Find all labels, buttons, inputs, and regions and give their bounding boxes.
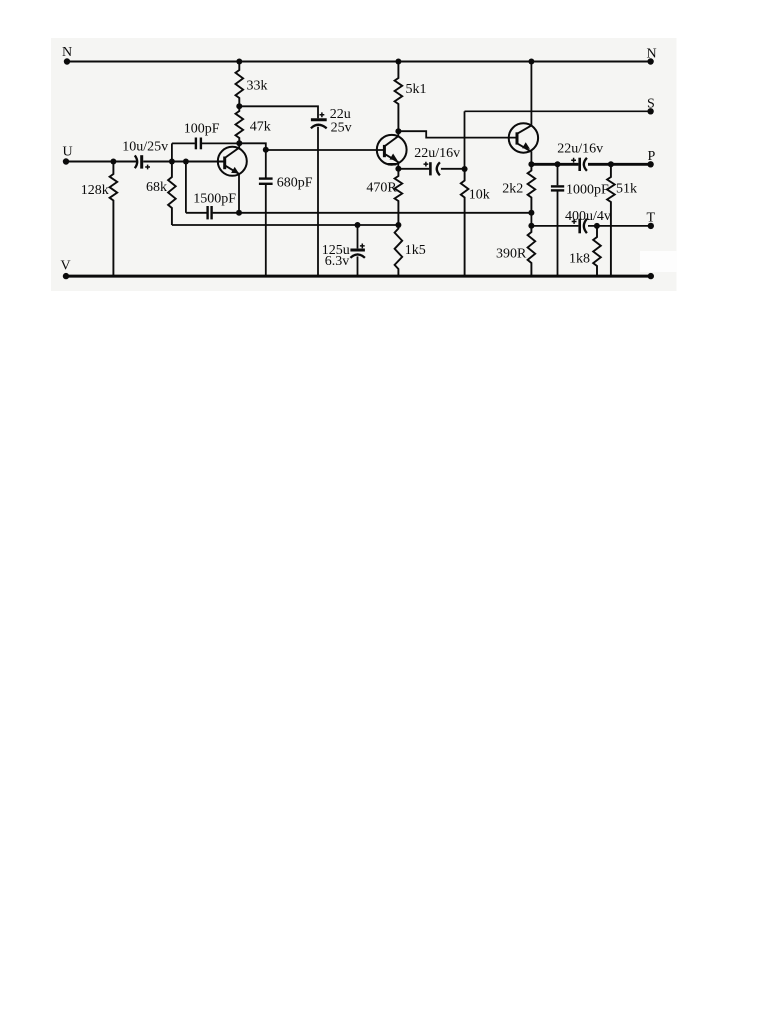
- svg-text:68k: 68k: [146, 180, 167, 195]
- node T line junction: [528, 223, 534, 229]
- node 2k2-390R junction: [528, 210, 534, 216]
- svg-text:470R: 470R: [366, 180, 397, 195]
- wire U rail: [66, 161, 137, 163]
- wire 22u cap to V rail: [317, 127, 319, 276]
- node 1500pF riser junction: [183, 159, 189, 165]
- transistor Q2 emitter arrow: [390, 154, 398, 161]
- capacitor C-in plus sign: [145, 165, 150, 170]
- capacitor 22u/16v-B plus sign: [571, 158, 576, 163]
- node V left terminal: [63, 273, 69, 279]
- svg-text:47k: 47k: [250, 119, 271, 134]
- wire 47k node to 680pF corner: [239, 143, 265, 150]
- capacitor 400u/4v curved plate: [584, 219, 587, 233]
- wire Q3 emitter down: [530, 151, 532, 164]
- wire T line left: [531, 225, 578, 227]
- wire 2k2 to T junction: [530, 213, 532, 226]
- wire Q3 collector up: [530, 62, 532, 125]
- wire 125u top: [357, 225, 359, 248]
- node 51k top junction: [608, 161, 614, 167]
- svg-text:P: P: [648, 149, 656, 164]
- svg-text:N: N: [647, 47, 657, 62]
- resistor 1k8: [593, 226, 601, 276]
- resistor 47k: [236, 106, 244, 143]
- capacitor 1500pF left plate: [206, 206, 208, 219]
- wire 1500pF riser: [185, 162, 187, 213]
- resistor 128k: [110, 162, 118, 277]
- svg-text:100pF: 100pF: [184, 121, 220, 136]
- capacitor 1500pF right plate: [210, 206, 212, 219]
- transistor Q1 circle: [218, 147, 247, 176]
- capacitor C-in 10u/25v straight plate: [140, 155, 143, 168]
- node Q2 emitter junction: [395, 166, 401, 172]
- capacitor 22u/16v-A straight plate: [429, 162, 432, 175]
- capacitor 22u/16v-A plus sign: [424, 162, 429, 167]
- svg-text:22u/16v: 22u/16v: [414, 146, 460, 161]
- svg-text:51k: 51k: [616, 181, 637, 196]
- svg-text:10u/25v: 10u/25v: [122, 139, 168, 154]
- resistor 33k: [236, 62, 244, 107]
- wire 33k junction to 22u cap: [239, 106, 318, 118]
- capacitor 680pF top plate: [259, 177, 273, 179]
- wire 68k to 1k5 node: [172, 224, 399, 226]
- wire 1500pF left: [186, 212, 207, 214]
- scan background: [51, 38, 677, 291]
- resistor 68k: [168, 162, 176, 226]
- node N-5k1 junction: [395, 59, 401, 65]
- wire Q2 base line: [266, 149, 384, 151]
- node 33k-47k junction: [236, 103, 242, 109]
- node V right terminal: [648, 273, 654, 279]
- wire Q2 emitter cap right: [441, 168, 465, 170]
- svg-text:22u/16v: 22u/16v: [557, 141, 603, 156]
- svg-text:1k5: 1k5: [405, 243, 426, 258]
- node 125u tap: [355, 222, 361, 228]
- node 47k bottom junction: [236, 140, 242, 146]
- wire 680pF top: [265, 150, 267, 178]
- transistor Q3 emitter arrow: [522, 142, 530, 149]
- wire 100pF left: [172, 142, 195, 144]
- wire P line right: [588, 163, 651, 166]
- transistor Q2 collector lead: [384, 131, 398, 146]
- node 1000pF top junction: [555, 161, 561, 167]
- resistor 470R: [395, 169, 403, 225]
- svg-text:1500pF: 1500pF: [193, 191, 236, 206]
- capacitor 125u curved plate: [350, 254, 365, 257]
- wire N rail: [67, 61, 651, 63]
- wire U rail to base: [143, 161, 225, 163]
- node U-128k junction: [110, 159, 116, 165]
- capacitor 680pF bottom plate: [259, 183, 273, 185]
- transistor Q1 emitter arrow: [231, 167, 239, 174]
- resistor 10k: [461, 169, 469, 276]
- capacitor 22u/16v-B straight plate: [578, 158, 581, 171]
- resistor 2k2: [528, 164, 536, 213]
- svg-text:10k: 10k: [469, 187, 490, 202]
- capacitor 400u/4v straight plate: [578, 219, 581, 234]
- transistor Q3 collector lead: [517, 126, 531, 134]
- capacitor 125u straight plate: [350, 249, 365, 252]
- svg-text:25v: 25v: [331, 120, 352, 135]
- node 100pF riser junction: [169, 159, 175, 165]
- svg-text:400u/4v: 400u/4v: [565, 209, 611, 224]
- wire S line: [465, 110, 651, 112]
- capacitor 22u/16v-B curved plate: [584, 158, 587, 171]
- wire Q2 emitter cap left: [398, 168, 429, 170]
- resistor 390R: [528, 226, 536, 276]
- resistor 5k1: [395, 62, 403, 132]
- capacitor 22u/25v curved plate: [311, 125, 327, 129]
- wire Q2 emitter down: [397, 162, 399, 169]
- svg-text:T: T: [647, 211, 656, 226]
- white patch: [640, 251, 677, 272]
- svg-text:2k2: 2k2: [502, 181, 523, 196]
- transistor Q1 base bar: [223, 157, 226, 170]
- node Q3 emitter junction: [528, 161, 534, 167]
- node 470R-1k5 junction: [395, 222, 401, 228]
- wire 125u bottom: [357, 256, 359, 276]
- node 1k8 top junction: [594, 223, 600, 229]
- node P terminal: [647, 161, 653, 167]
- capacitor 100pF left plate: [195, 138, 197, 150]
- node N-Q3 junction: [528, 59, 534, 65]
- node N-33k junction: [236, 59, 242, 65]
- node 680pF junction: [263, 147, 269, 153]
- resistor 51k: [607, 164, 615, 276]
- transistor Q2 base bar: [383, 145, 386, 157]
- capacitor 22u/25v straight plate: [311, 118, 327, 121]
- node T terminal: [648, 223, 654, 229]
- svg-text:N: N: [62, 45, 72, 60]
- svg-text:390R: 390R: [496, 247, 527, 262]
- wire 1000pF bottom: [557, 190, 559, 276]
- capacitor C-in 10u/25v curved plate: [135, 155, 137, 168]
- wire Q2 collector to Q3 base: [398, 131, 516, 137]
- wire P line left: [531, 163, 578, 166]
- capacitor 1000pF bottom plate: [551, 189, 564, 191]
- transistor Q3 circle: [509, 123, 538, 152]
- wire T line right: [588, 225, 651, 227]
- wire V rail: [66, 275, 651, 278]
- wire 1000pF top: [557, 164, 559, 185]
- transistor Q2 bottom dash: [388, 163, 397, 165]
- wire 1500pF right: [213, 212, 239, 214]
- transistor Q1 collector lead: [225, 143, 240, 158]
- svg-text:128k: 128k: [81, 183, 109, 198]
- svg-text:33k: 33k: [247, 79, 268, 94]
- svg-text:680pF: 680pF: [277, 176, 313, 191]
- capacitor 22u/16v-A curved plate: [437, 162, 440, 175]
- transistor Q2 emitter lead: [384, 154, 398, 162]
- svg-text:5k1: 5k1: [406, 82, 427, 97]
- wire Q1 emitter down: [238, 174, 240, 213]
- wire 100pF riser: [171, 143, 173, 161]
- node N left terminal: [64, 58, 70, 64]
- node U terminal: [63, 158, 69, 164]
- wire 680pF bottom: [265, 184, 267, 276]
- capacitor 1000pF top plate: [551, 185, 564, 187]
- node Q1 emitter junction: [236, 210, 242, 216]
- node Q2 collector junction: [395, 128, 401, 134]
- capacitor 400u/4v plus sign: [572, 219, 577, 224]
- wire Q1 emitter to 2k2-390R junction: [239, 212, 531, 214]
- wire 10k riser to S line: [464, 111, 466, 169]
- svg-text:1000pF: 1000pF: [566, 183, 609, 198]
- svg-text:V: V: [61, 258, 71, 273]
- transistor Q1 emitter lead: [225, 165, 239, 174]
- transistor Q2 circle: [377, 135, 407, 165]
- node 10k top junction: [462, 166, 468, 172]
- capacitor 125u plus sign: [360, 244, 365, 249]
- capacitor 22u/25v plus sign: [320, 112, 325, 117]
- resistor 1k5: [395, 225, 403, 276]
- svg-text:1k8: 1k8: [569, 251, 590, 266]
- node S terminal: [647, 108, 653, 114]
- node N right terminal: [647, 58, 653, 64]
- svg-text:6.3v: 6.3v: [325, 254, 350, 269]
- svg-text:S: S: [647, 97, 655, 112]
- svg-text:U: U: [63, 144, 73, 159]
- transistor Q3 emitter lead: [517, 143, 531, 151]
- wire 100pF right: [202, 142, 239, 144]
- transistor Q3 base bar: [516, 132, 519, 144]
- capacitor 100pF right plate: [200, 138, 202, 150]
